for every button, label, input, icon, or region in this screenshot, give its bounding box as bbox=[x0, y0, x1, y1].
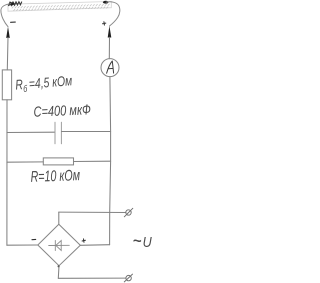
wire ammeter down right side bbox=[110, 77, 111, 245]
resistor R body bbox=[43, 158, 73, 165]
resistor Rb body bbox=[2, 70, 11, 100]
plus label at right slider bbox=[103, 22, 106, 25]
bottom AC rail to terminal bbox=[58, 277, 126, 279]
capacitor rail right segment bbox=[62, 131, 111, 133]
top AC rail to terminal bbox=[59, 211, 126, 213]
plus label at bridge right vertex bbox=[82, 239, 85, 242]
label R value bbox=[30, 166, 80, 185]
svg-text:Rб =4,5 кОм: Rб =4,5 кОм bbox=[15, 73, 73, 95]
left slider curl wire bbox=[1, 4, 11, 27]
label C value bbox=[33, 101, 91, 120]
ammeter letter bbox=[107, 61, 114, 73]
wire left arrow to resistor Rb bbox=[6, 38, 9, 70]
wire bridge top vertex up bbox=[58, 212, 60, 224]
capacitor rail left segment bbox=[7, 131, 55, 133]
rheostat winding hatch ticks upper row bbox=[12, 4, 109, 8]
resistor R rail left segment bbox=[7, 161, 43, 163]
wire bridge bottom vertex down bbox=[57, 266, 60, 279]
junction dot at bridge bottom vertex bbox=[58, 265, 60, 267]
wire bridge right vertex to right column bbox=[80, 244, 109, 247]
svg-text:С=400 мкФ: С=400 мкФ bbox=[33, 101, 91, 120]
slider contact blob right bbox=[103, 1, 109, 4]
resistor R rail right segment bbox=[74, 160, 111, 162]
minus label at left slider bbox=[11, 21, 16, 23]
rheostat winding bar outline bbox=[8, 2, 111, 12]
minus label at bridge left vertex bbox=[32, 238, 36, 240]
bottom AC terminal bbox=[124, 274, 132, 282]
svg-text:~: ~ bbox=[133, 233, 142, 250]
right slider curl wire bbox=[106, 2, 120, 26]
ammeter A bbox=[101, 59, 119, 77]
wire left column to bridge left vertex bbox=[7, 244, 38, 246]
slider contact blob left bbox=[9, 2, 14, 5]
dark zigzag scribble left end of winding bbox=[8, 2, 21, 6]
rheostat winding hatch ticks lower row bbox=[14, 7, 108, 11]
left slider arrow bbox=[6, 27, 10, 38]
capacitor C plates bbox=[55, 122, 61, 144]
right slider arrow bbox=[108, 26, 112, 38]
label AC source ~U bbox=[133, 233, 153, 250]
wire resistor Rb down left side bbox=[6, 100, 8, 245]
svg-text:R=10 кОм: R=10 кОм bbox=[30, 166, 80, 185]
diode inside bridge bbox=[49, 241, 70, 251]
bridge rectifier diamond bbox=[38, 224, 81, 266]
label Rb value bbox=[15, 73, 73, 95]
wire right arrow to ammeter bbox=[108, 37, 110, 58]
svg-text:U: U bbox=[143, 233, 153, 250]
top AC terminal bbox=[124, 208, 133, 217]
